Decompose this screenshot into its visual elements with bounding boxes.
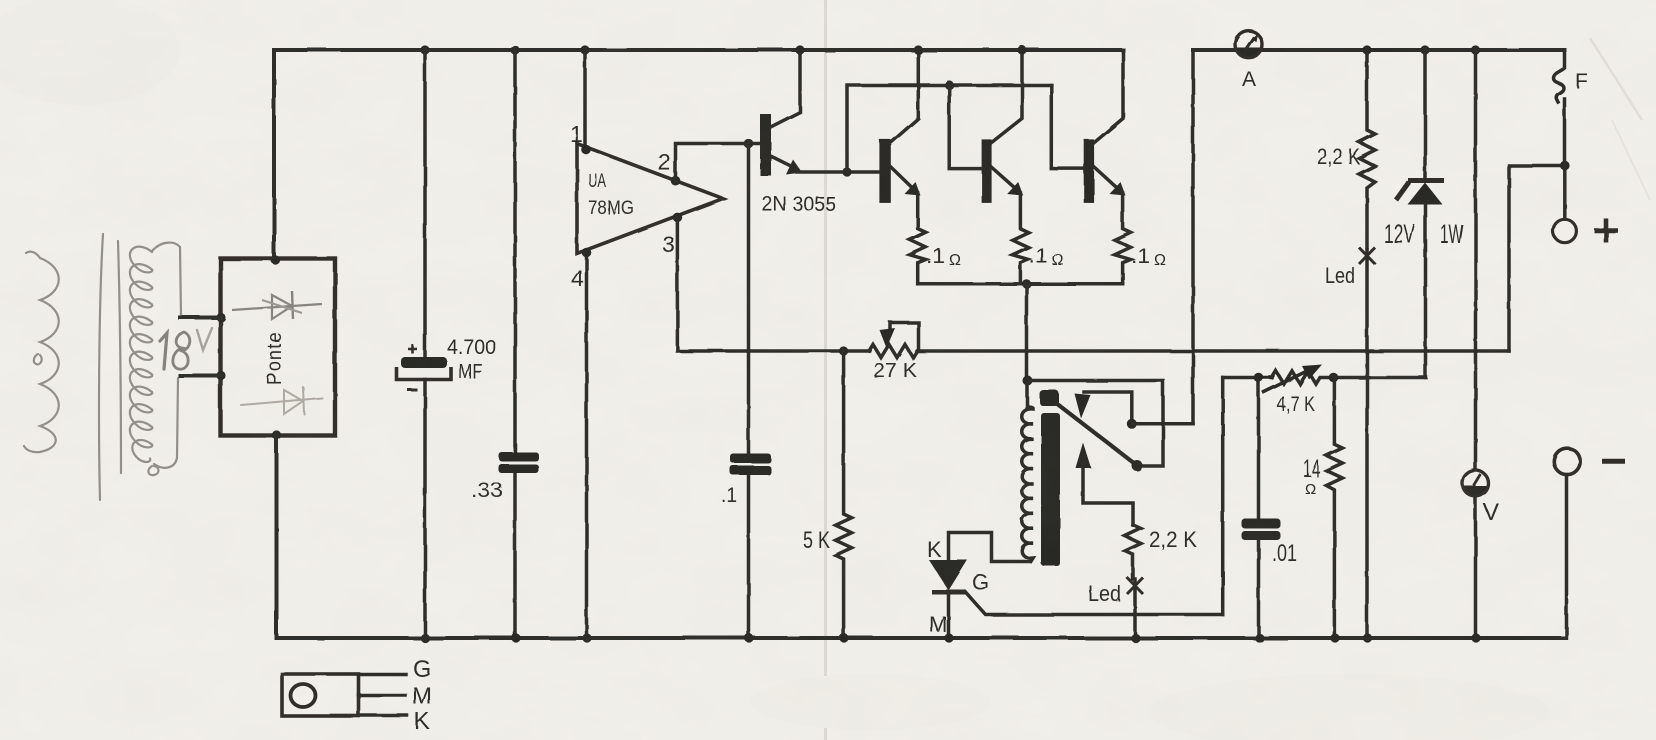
wire AC stub upper bbox=[180, 316, 221, 320]
terminal minus circle bbox=[1554, 448, 1580, 474]
potentiometer 27K body bbox=[869, 345, 1509, 358]
SCR pinout lead K bbox=[359, 714, 408, 718]
transformer T1 secondary lead top (pencil) bbox=[152, 243, 181, 316]
transistor Q4 base bar bbox=[1084, 139, 1094, 203]
diode sketch upper (pencil) bbox=[232, 304, 322, 310]
SCR Q5 cathode bar bbox=[932, 590, 966, 595]
node top bus C1 bbox=[420, 45, 429, 54]
diode sketch lower (pencil) bbox=[241, 398, 322, 405]
wire relay top to armature riser bbox=[1027, 381, 1164, 467]
relay core bar bbox=[1041, 413, 1060, 566]
wire emitter rail bbox=[918, 282, 1123, 286]
capacitor C2 wire lower bbox=[513, 473, 517, 638]
LED D1 symbol bbox=[1359, 248, 1375, 265]
relay fixed contact upper (arrow down) bbox=[1084, 392, 1132, 424]
wire output riser to top bbox=[1191, 50, 1195, 424]
zener diode DZ wire lower bbox=[1424, 204, 1428, 378]
node top bus Q1 collector bbox=[795, 45, 804, 54]
wire AC stub lower bbox=[180, 374, 221, 378]
node ground C2 bbox=[511, 633, 520, 642]
wire LED to ground bbox=[1133, 579, 1137, 638]
transistor Q3 collector bbox=[991, 50, 1022, 143]
transformer T1 primary winding (pencil) bbox=[24, 252, 59, 453]
transformer T1 secondary lead bottom (pencil) bbox=[154, 378, 178, 468]
terminal plus circle bbox=[1553, 219, 1576, 242]
zener diode DZ wing bbox=[1396, 182, 1409, 200]
node relay contact corner bbox=[1127, 419, 1137, 429]
node pin3 line 5K junction bbox=[839, 346, 848, 355]
transformer T1 secondary winding (pencil) bbox=[130, 247, 152, 462]
node pin4 bbox=[582, 248, 592, 258]
node top bus C2 bbox=[510, 45, 519, 54]
node ground LED right bbox=[1363, 633, 1372, 642]
SCR pinout lead G bbox=[359, 673, 407, 677]
label 18V (pencil handwriting) bbox=[160, 333, 167, 369]
capacitor C2 .33 plates bbox=[499, 452, 539, 461]
wire to plus terminal bbox=[1563, 166, 1567, 220]
node .01 junction bbox=[1254, 373, 1264, 383]
node ground C1 bbox=[420, 633, 429, 642]
LED D2 symbol bbox=[1127, 578, 1143, 595]
capacitor C4 .01 wire upper bbox=[1257, 378, 1261, 520]
resistor RE2 .1 ohm bbox=[1012, 193, 1028, 284]
node top bus Q3 collector bbox=[1017, 45, 1026, 54]
resistor R 14 ohm bbox=[1326, 378, 1342, 639]
resistor R 2,2K right bbox=[1359, 50, 1375, 248]
wire ground bus bbox=[277, 636, 1566, 640]
capacitor C1 4.700MF wire upper bbox=[423, 50, 427, 358]
voltmeter V needle bbox=[1474, 475, 1481, 487]
label C1 minus sign bbox=[407, 388, 417, 391]
node pin2 cap junction bbox=[744, 139, 754, 149]
potentiometer 27K wiper arrow bbox=[890, 323, 919, 350]
capacitor C1 wire lower bbox=[423, 380, 427, 639]
node ground 14 ohm bbox=[1330, 633, 1339, 642]
wire top right segment bbox=[1193, 48, 1565, 52]
voltmeter V body bbox=[1463, 470, 1489, 496]
capacitor C1 4.700MF minus bracket bbox=[397, 367, 452, 380]
SCR pinout hole bbox=[291, 684, 316, 707]
transistor Q2 collector bbox=[891, 50, 919, 143]
capacitor C4 .01 plates bbox=[1242, 519, 1281, 529]
node ground SCR bbox=[944, 633, 953, 642]
node ground C3 bbox=[744, 633, 753, 642]
node ground LED mid bbox=[1131, 633, 1140, 642]
capacitor C3 wire lower bbox=[747, 475, 751, 638]
capacitor C3 .1 plates bbox=[730, 454, 771, 464]
transistor Q2 emitter bbox=[891, 167, 913, 189]
node 14 ohm junction bbox=[1329, 373, 1339, 383]
voltmeter V wire lower bbox=[1474, 496, 1478, 638]
wire 4,7K rail bbox=[1223, 376, 1272, 380]
capacitor C3 .1 wire upper bbox=[747, 144, 751, 455]
node ground 5K bbox=[839, 633, 848, 642]
potentiometer 4,7K body bbox=[1272, 371, 1426, 384]
wire pin2 to 2N3055 base bbox=[676, 144, 762, 181]
wire Q1 emitter to Q2 base bbox=[797, 170, 880, 174]
node ground V meter bbox=[1471, 633, 1480, 642]
SCR pinout lead M bbox=[359, 693, 406, 697]
node top bus Q2 collector bbox=[914, 45, 923, 54]
node pin1 bbox=[581, 145, 591, 155]
label minus sign bbox=[1602, 459, 1625, 464]
wire gate riser bbox=[1221, 378, 1225, 615]
transistor Q4 emitter bbox=[1094, 167, 1118, 189]
zener diode DZ wire upper bbox=[1423, 50, 1427, 180]
capacitor C1 4.700MF plus plate bbox=[401, 357, 447, 368]
node top 2,2K right bbox=[1362, 45, 1371, 54]
label plus sign bbox=[1594, 219, 1618, 243]
wire LED right to ground bbox=[1365, 250, 1369, 638]
wire lower contact tail bbox=[1083, 464, 1133, 525]
wire SCR cathode to relay coil bbox=[949, 533, 1031, 562]
regulator U1 UA78MG triangle body bbox=[577, 144, 723, 254]
zener diode DZ cathode bar bbox=[1408, 178, 1444, 183]
node top V meter bbox=[1471, 45, 1480, 54]
transistor Q1 emitter bbox=[771, 156, 798, 169]
wire ground bus underlay bbox=[277, 637, 1566, 640]
transistor Q1 collector bbox=[771, 50, 801, 127]
potentiometer 4,7K arrow bbox=[1264, 372, 1305, 392]
label C1 plus sign bbox=[408, 345, 417, 354]
voltmeter V wire upper bbox=[1474, 50, 1478, 471]
transformer T1 core lines (pencil) bbox=[99, 234, 103, 500]
wire base distribution riser and top bbox=[847, 85, 1051, 172]
node base rail riser bbox=[842, 167, 851, 176]
resistor RE3 .1 ohm bbox=[1115, 193, 1131, 284]
node top bus pin1 bbox=[580, 45, 589, 54]
transistor Q3 base bar bbox=[982, 139, 992, 203]
resistor R 2,2K mid bbox=[1125, 525, 1141, 579]
regulator U1 UA78MG pin4 wire bbox=[585, 253, 589, 638]
fuse F bbox=[1554, 50, 1565, 102]
wire Q3 base drop bbox=[949, 85, 982, 169]
node armature pivot bbox=[1132, 460, 1143, 471]
node bridge AC input lower bbox=[216, 371, 225, 380]
node ground C4 bbox=[1255, 633, 1264, 642]
relay contact pad bbox=[1040, 390, 1060, 406]
bridge rectifier Ponte box bbox=[221, 259, 336, 436]
wire top bus underlay bbox=[274, 49, 1565, 52]
resistor RE1 .1 ohm bbox=[910, 193, 926, 284]
regulator U1 UA78MG pin1 wire bbox=[583, 50, 587, 149]
wire sense drop bbox=[1025, 284, 1029, 381]
transistor Q1 2N3055 base bar bbox=[760, 114, 771, 176]
wire pin3 down and right bbox=[677, 217, 869, 351]
transformer T1 pencil mark o bbox=[34, 354, 42, 364]
relay fixed contact lower (arrow up) bbox=[1076, 443, 1092, 469]
wire Q4 base drop bbox=[1051, 85, 1084, 169]
node bridge top bbox=[271, 255, 280, 264]
transistor Q2 base bar bbox=[879, 139, 890, 203]
node emitter rail sense bbox=[1022, 279, 1031, 288]
transistor Q4 collector bbox=[1094, 50, 1123, 143]
node ground pin4 bbox=[582, 633, 591, 642]
node pin3 bbox=[673, 213, 683, 223]
SCR pinout box bbox=[282, 674, 359, 716]
ammeter A needle bbox=[1245, 37, 1255, 51]
node base rail Q3 tap bbox=[945, 80, 954, 89]
wire sense line to voltage divider right bbox=[1509, 166, 1565, 352]
node top zener bbox=[1420, 45, 1429, 54]
SCR gate lead bbox=[966, 592, 1223, 615]
wire contact corner to output riser bbox=[1132, 422, 1193, 426]
wire minus terminal to ground bus bbox=[1565, 475, 1569, 638]
node pin2 bbox=[671, 176, 681, 186]
relay coil bbox=[1022, 381, 1033, 562]
wire SCR anode to ground bbox=[947, 592, 951, 638]
node bridge AC input upper bbox=[216, 313, 225, 322]
resistor R 5K bbox=[836, 351, 852, 638]
transistor Q3 emitter bbox=[991, 167, 1015, 189]
ammeter A body bbox=[1235, 31, 1262, 58]
wire bridge bottom to ground bus bbox=[275, 435, 279, 638]
node bridge bottom bbox=[272, 430, 281, 439]
capacitor C4 wire lower bbox=[1257, 540, 1261, 638]
node sense relay junction bbox=[1023, 376, 1033, 386]
relay armature arm bbox=[1056, 403, 1137, 466]
SCR Q5 triangle bbox=[929, 560, 968, 591]
wire top bus bbox=[274, 48, 1123, 52]
zener diode DZ triangle bbox=[1408, 183, 1443, 205]
node fuse sense junction bbox=[1560, 161, 1570, 171]
capacitor C2 .33 wire upper bbox=[513, 50, 517, 452]
wire top bus left corner down to bridge bbox=[272, 50, 276, 258]
